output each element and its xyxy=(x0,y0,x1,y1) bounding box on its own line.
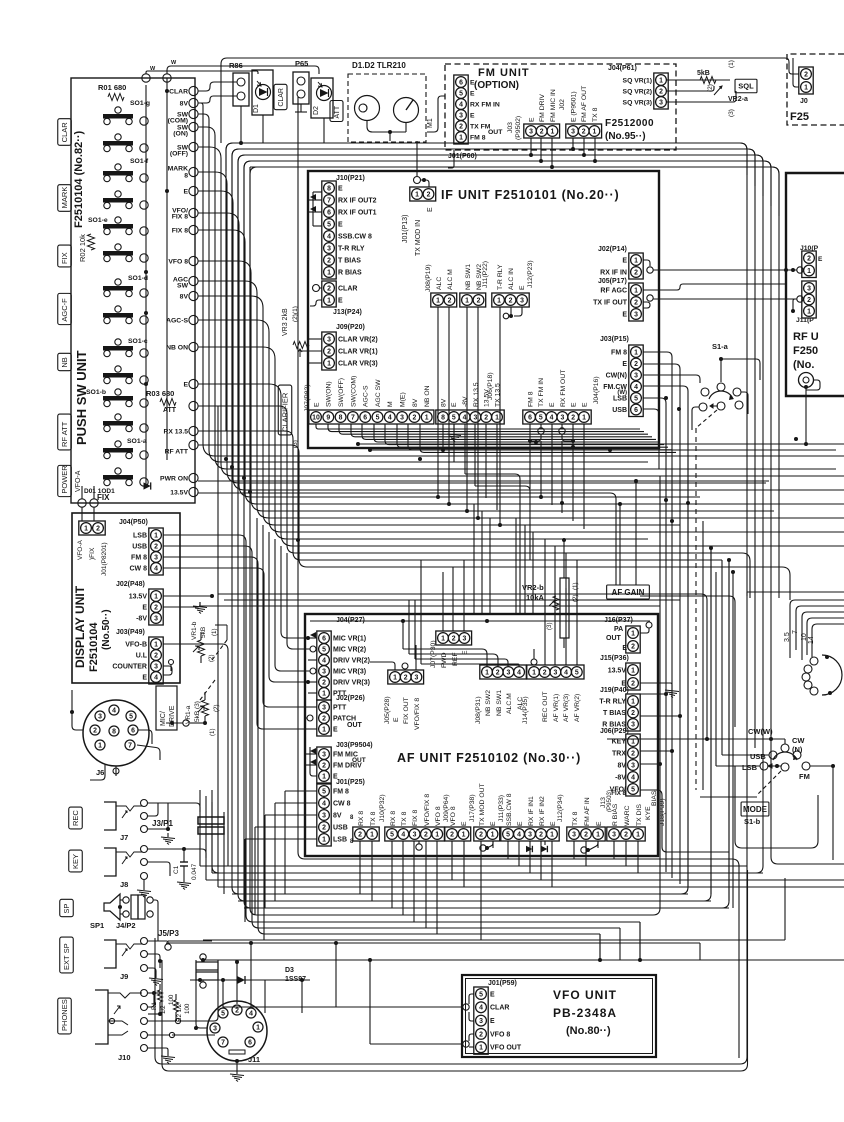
svg-text:E: E xyxy=(622,257,627,264)
connector J07(P82) xyxy=(309,410,434,424)
svg-text:ATT: ATT xyxy=(163,407,177,414)
svg-text:(OFF): (OFF) xyxy=(170,150,188,157)
J11 labels xyxy=(465,264,483,290)
svg-text:8: 8 xyxy=(327,185,331,192)
label FM xyxy=(799,772,810,781)
label J3/P1 xyxy=(152,819,173,828)
svg-text:E: E xyxy=(818,256,823,263)
panel label RF ATT xyxy=(58,414,72,450)
svg-text:3: 3 xyxy=(154,554,158,561)
svg-text:(2): (2) xyxy=(572,594,579,602)
capacitor C1 xyxy=(173,849,198,890)
svg-text:3: 3 xyxy=(571,128,575,135)
connector J11(P33) xyxy=(474,827,500,841)
svg-text:CLAR VR(1): CLAR VR(1) xyxy=(338,348,378,355)
svg-text:14: 14 xyxy=(808,636,815,644)
J09 exit wires xyxy=(300,339,322,363)
svg-text:VFO-B: VFO-B xyxy=(125,641,147,648)
svg-text:E: E xyxy=(470,112,475,119)
diode D1 xyxy=(252,70,273,115)
svg-text:E: E xyxy=(470,79,475,86)
panel label NB xyxy=(58,353,72,370)
svg-text:(W): (W) xyxy=(617,390,627,396)
switch SO1-c section A xyxy=(103,339,133,357)
svg-text:MIC/: MIC/ xyxy=(160,711,167,726)
wire to J0 pin xyxy=(789,58,799,87)
wire meter wires xyxy=(389,132,391,141)
svg-text:1: 1 xyxy=(154,532,158,539)
diode D2 xyxy=(311,78,333,118)
wire push col 2 xyxy=(166,78,168,460)
svg-text:2: 2 xyxy=(496,669,500,676)
connector J03(P9504) xyxy=(317,747,331,783)
svg-text:FM DRIV: FM DRIV xyxy=(539,94,546,122)
wire fan y320 xyxy=(198,320,844,532)
svg-text:4: 4 xyxy=(112,707,116,714)
svg-text:1: 1 xyxy=(322,773,326,780)
label D1.D2 TLR210 xyxy=(352,61,406,70)
svg-text:RX IF IN2: RX IF IN2 xyxy=(539,796,546,826)
svg-text:J17(P38): J17(P38) xyxy=(469,794,476,822)
svg-text:SO1-g: SO1-g xyxy=(130,100,150,107)
svg-text:E: E xyxy=(571,402,578,407)
J08 labels xyxy=(436,269,454,290)
wire FM J03 down3 xyxy=(550,138,554,169)
jack J7 xyxy=(104,800,148,843)
label CLAR (D1) xyxy=(274,84,287,109)
J15 labels xyxy=(608,667,627,687)
svg-text:3: 3 xyxy=(327,336,331,343)
J03(P9504) labels xyxy=(333,751,366,780)
wire bus t2 xyxy=(232,149,755,420)
svg-text:AF VR(1): AF VR(1) xyxy=(553,694,560,722)
pot VR1-a xyxy=(185,692,220,736)
svg-text:7: 7 xyxy=(128,742,132,749)
panel label KEY xyxy=(69,850,83,872)
J7 wires xyxy=(148,803,175,845)
svg-text:E: E xyxy=(142,604,147,611)
svg-text:8: 8 xyxy=(339,414,343,421)
svg-text:3: 3 xyxy=(413,831,417,838)
svg-text:CW 8: CW 8 xyxy=(130,565,148,572)
connector J15(P36) xyxy=(626,663,640,690)
svg-text:E: E xyxy=(183,188,188,195)
J07(P30) wires up xyxy=(443,560,464,631)
connector J03(P15) xyxy=(629,345,643,417)
svg-text:5: 5 xyxy=(452,414,456,421)
svg-text:NB SW2: NB SW2 xyxy=(485,690,492,716)
wire push bottom xyxy=(82,486,94,499)
svg-text:RX FM IN: RX FM IN xyxy=(470,101,500,108)
lamp meter dashed box xyxy=(348,74,426,142)
svg-text:6: 6 xyxy=(322,635,326,642)
wire P65 stub xyxy=(295,104,307,112)
svg-text:J8: J8 xyxy=(120,880,128,889)
label J08(P31) xyxy=(475,696,482,724)
wire fan y347 xyxy=(198,347,648,539)
wire bus B908 xyxy=(244,907,729,909)
svg-text:-8V: -8V xyxy=(615,774,626,781)
svg-text:(COM): (COM) xyxy=(168,117,188,124)
svg-text:D1.D2 TLR210: D1.D2 TLR210 xyxy=(352,61,406,70)
svg-text:2: 2 xyxy=(154,652,158,659)
svg-text:CW: CW xyxy=(792,736,805,745)
label J14(P35) xyxy=(522,696,529,724)
svg-text:10: 10 xyxy=(801,633,808,641)
label J03(P9504) xyxy=(336,742,373,749)
svg-text:5: 5 xyxy=(631,786,635,793)
connector J06(P29) xyxy=(626,734,640,796)
svg-text:3: 3 xyxy=(154,663,158,670)
svg-text:10: 10 xyxy=(312,414,320,421)
J15 gnd wire xyxy=(640,683,679,698)
wire J03p5 xyxy=(643,396,668,462)
connector J08(P31) xyxy=(480,665,527,679)
svg-text:NB: NB xyxy=(60,357,69,367)
svg-text:VFO UNIT: VFO UNIT xyxy=(553,988,617,1002)
connector J12(P23) xyxy=(492,293,529,307)
IF unit title xyxy=(441,188,619,202)
svg-text:1: 1 xyxy=(495,414,499,421)
wire central drops xyxy=(474,504,577,614)
svg-text:2: 2 xyxy=(631,680,635,687)
connector J03(P49) xyxy=(149,637,163,684)
svg-text:FWD: FWD xyxy=(441,652,448,668)
wire bus t3 xyxy=(238,155,763,430)
svg-text:R BIAS: R BIAS xyxy=(612,803,619,826)
svg-text:1: 1 xyxy=(370,831,374,838)
svg-text:5: 5 xyxy=(129,713,133,720)
connector J05(P28) xyxy=(388,670,424,684)
svg-text:E: E xyxy=(451,402,458,407)
svg-text:2: 2 xyxy=(327,348,331,355)
svg-text:1: 1 xyxy=(659,77,663,84)
svg-text:F2510104 (No.82··): F2510104 (No.82··) xyxy=(73,130,85,228)
svg-text:M: M xyxy=(387,401,394,407)
svg-text:(1): (1) xyxy=(211,628,218,636)
pot VR2-a xyxy=(697,70,722,95)
svg-text:NB ON: NB ON xyxy=(424,385,431,407)
connector J14(P35) xyxy=(527,665,584,679)
wire fan y191 xyxy=(198,191,844,490)
svg-text:J08(P31): J08(P31) xyxy=(475,696,482,724)
svg-text:1: 1 xyxy=(631,667,635,674)
J18(P39) labels xyxy=(612,790,666,826)
svg-text:2: 2 xyxy=(322,679,326,686)
AF bottom hooks xyxy=(416,841,598,853)
svg-text:1: 1 xyxy=(550,128,554,135)
resistor R02 10k xyxy=(78,234,95,262)
svg-text:3: 3 xyxy=(400,414,404,421)
svg-text:USB: USB xyxy=(612,407,627,414)
wire FM J02 down3 xyxy=(593,138,597,163)
svg-text:1: 1 xyxy=(415,191,419,198)
wire bus B894 xyxy=(232,893,688,895)
connector J01(P13) xyxy=(410,187,436,201)
svg-text:3: 3 xyxy=(322,751,326,758)
svg-text:F2512000: F2512000 xyxy=(605,118,654,129)
label S1-b xyxy=(744,817,761,826)
svg-text:MIC VR(3): MIC VR(3) xyxy=(333,668,366,675)
svg-text:J05(P28): J05(P28) xyxy=(384,696,391,724)
panel label MARK xyxy=(58,185,72,212)
label J11 xyxy=(248,1055,260,1064)
connector J13(P24) xyxy=(322,281,336,307)
label FIX bottom xyxy=(97,493,110,502)
VFO unit name xyxy=(553,1006,617,1020)
svg-text:E: E xyxy=(142,674,147,681)
label ATT (D2) xyxy=(330,100,343,121)
svg-text:MARK: MARK xyxy=(168,165,188,172)
label SO1-b xyxy=(86,389,106,396)
J14(P35) labels xyxy=(542,691,581,722)
label SQL xyxy=(735,79,757,93)
svg-text:RF U: RF U xyxy=(793,331,819,343)
J01(P60) labels xyxy=(470,79,503,141)
wire D1 bottom xyxy=(262,115,264,143)
pot VR3 2kB xyxy=(282,306,309,357)
svg-text:E: E xyxy=(393,717,400,722)
svg-text:13.5V: 13.5V xyxy=(129,593,148,600)
svg-text:3: 3 xyxy=(154,615,158,622)
label J03(P9502) xyxy=(507,116,522,140)
FM unit title xyxy=(478,67,530,79)
panel label REC xyxy=(69,807,83,829)
svg-text:D01 1OD1: D01 1OD1 xyxy=(84,488,115,495)
svg-text:(1): (1) xyxy=(572,582,579,590)
svg-text:SO1-c: SO1-c xyxy=(128,338,148,345)
wire fan y213 xyxy=(198,213,700,497)
svg-text:KEY: KEY xyxy=(71,854,80,869)
wire AF inner h621 xyxy=(310,619,650,623)
display unit number xyxy=(101,609,112,650)
label J05(P17) xyxy=(598,278,627,285)
svg-text:1: 1 xyxy=(393,674,397,681)
svg-text:COUNTER: COUNTER xyxy=(112,663,147,670)
wire J03p6 xyxy=(643,407,681,469)
svg-text:1: 1 xyxy=(807,308,811,315)
J01(P59) labels xyxy=(490,991,522,1051)
svg-text:0.047: 0.047 xyxy=(191,863,198,880)
svg-text:PWR ON: PWR ON xyxy=(160,475,188,482)
svg-text:RX IF IN: RX IF IN xyxy=(600,269,627,276)
svg-text:E: E xyxy=(183,381,188,388)
wire jack feeds xyxy=(168,803,218,1021)
svg-text:4: 4 xyxy=(459,101,463,108)
svg-text:J03(P15): J03(P15) xyxy=(600,336,629,343)
J02 pin1 loop xyxy=(643,260,653,273)
svg-text:7: 7 xyxy=(351,414,355,421)
svg-text:3: 3 xyxy=(327,245,331,252)
label J5/P3 xyxy=(158,929,179,938)
svg-text:(No.95··): (No.95··) xyxy=(605,131,646,142)
rot labels VR2a xyxy=(707,60,735,117)
svg-text:R86: R86 xyxy=(229,61,243,70)
wire D2 bottom xyxy=(323,118,325,143)
svg-text:J02(P48): J02(P48) xyxy=(116,581,145,588)
svg-text:1: 1 xyxy=(485,669,489,676)
svg-text:1: 1 xyxy=(154,641,158,648)
svg-text:E: E xyxy=(338,297,343,304)
label J02(P26) xyxy=(336,695,365,702)
svg-text:2: 2 xyxy=(484,414,488,421)
svg-text:8V: 8V xyxy=(617,762,626,769)
J06 labels xyxy=(440,382,501,407)
wire bus B873 xyxy=(212,872,763,874)
band switch contacts xyxy=(802,655,842,695)
svg-text:LSB: LSB xyxy=(333,836,347,843)
label SO1-c xyxy=(128,338,148,345)
label J04(P50) xyxy=(119,519,148,526)
svg-text:CLAR: CLAR xyxy=(490,1005,509,1012)
wire frameA xyxy=(298,97,739,1058)
label SO1-g xyxy=(130,100,150,107)
svg-text:LSB: LSB xyxy=(133,532,147,539)
svg-text:TX MOD IN: TX MOD IN xyxy=(415,220,422,256)
svg-text:8: 8 xyxy=(112,728,116,735)
svg-text:SW: SW xyxy=(177,282,189,289)
svg-text:SO1-b: SO1-b xyxy=(86,389,106,396)
J17(P38) labels xyxy=(450,794,476,826)
svg-text:AGC SW: AGC SW xyxy=(375,379,382,407)
wire fan y431 xyxy=(198,431,722,560)
svg-text:FM 8: FM 8 xyxy=(527,391,534,407)
wire bus TB3 xyxy=(212,155,763,873)
J04(P61) labels xyxy=(623,77,652,106)
svg-text:3: 3 xyxy=(213,1025,217,1032)
switch SO1-b section A xyxy=(103,389,133,407)
wire bus TB5 xyxy=(250,167,779,598)
svg-text:SQ VR(1): SQ VR(1) xyxy=(623,77,652,84)
svg-text:AF VR(3): AF VR(3) xyxy=(563,694,570,722)
FM unit subtitle xyxy=(474,80,519,91)
svg-text:PHONES: PHONES xyxy=(60,999,69,1031)
svg-text:1: 1 xyxy=(491,831,495,838)
svg-text:TX 8: TX 8 xyxy=(572,811,579,826)
IF unit box xyxy=(308,171,659,448)
svg-text:3: 3 xyxy=(462,635,466,642)
svg-text:TX IF OUT: TX IF OUT xyxy=(593,299,628,306)
svg-text:OUT: OUT xyxy=(488,129,503,136)
svg-text:OUT: OUT xyxy=(352,757,366,764)
svg-text:PB-2348A: PB-2348A xyxy=(553,1006,617,1020)
svg-text:4: 4 xyxy=(479,1005,483,1012)
J10(P32) labels xyxy=(358,794,386,826)
label J02(P14) xyxy=(598,246,627,253)
svg-text:NB ON: NB ON xyxy=(166,344,188,351)
svg-text:R BIAS: R BIAS xyxy=(338,269,362,276)
connector J4/P2 xyxy=(116,895,153,930)
svg-text:4: 4 xyxy=(401,831,405,838)
switch SO1-a contact b xyxy=(140,478,148,486)
svg-text:TX 8: TX 8 xyxy=(401,811,408,826)
svg-text:VFO 8: VFO 8 xyxy=(168,258,188,265)
svg-text:4: 4 xyxy=(517,831,521,838)
svg-text:2: 2 xyxy=(404,674,408,681)
connector J01(P60) xyxy=(454,75,468,144)
panel label POWER xyxy=(58,465,72,497)
svg-text:FIX 8: FIX 8 xyxy=(172,213,188,220)
svg-text:AGC-S: AGC-S xyxy=(166,317,188,324)
wire bus TB1 xyxy=(155,143,747,1064)
wire bus TB2 xyxy=(232,149,755,748)
svg-text:F2510104: F2510104 xyxy=(88,622,100,672)
svg-text:E: E xyxy=(333,726,338,733)
J05(P28) labels xyxy=(393,697,421,730)
wire TX IF OUT xyxy=(653,298,797,300)
switch SO1-g section B xyxy=(103,134,133,152)
svg-text:RX IF IN1: RX IF IN1 xyxy=(528,796,535,826)
wire disp 135v xyxy=(163,594,214,598)
svg-text:P65: P65 xyxy=(295,59,308,68)
svg-text:E: E xyxy=(549,402,556,407)
wire M1 to FM xyxy=(427,96,445,132)
connector RF J11 xyxy=(802,281,816,318)
svg-text:FM AF IN: FM AF IN xyxy=(584,797,591,826)
svg-text:3: 3 xyxy=(414,674,418,681)
svg-text:2: 2 xyxy=(327,285,331,292)
jack J9 xyxy=(104,938,148,982)
RF J10 pin1 wire xyxy=(791,267,803,273)
connector J02(P14) xyxy=(629,253,643,279)
svg-text:J11(P22): J11(P22) xyxy=(482,261,489,288)
svg-text:2: 2 xyxy=(427,191,431,198)
svg-text:VFO-A: VFO-A xyxy=(77,539,84,560)
svg-text:J02(P26): J02(P26) xyxy=(336,695,365,702)
J12 pin3 hook xyxy=(503,307,522,319)
svg-text:7: 7 xyxy=(792,630,799,634)
svg-text:1: 1 xyxy=(459,134,463,141)
wire y934 xyxy=(163,557,600,960)
J13 stub xyxy=(310,285,322,307)
switch S1-a xyxy=(699,357,743,411)
J6 wires xyxy=(70,690,160,780)
J01(P59) left wires xyxy=(463,994,474,1047)
svg-text:AGC-F: AGC-F xyxy=(60,298,69,322)
wire right verticals xyxy=(666,440,733,908)
svg-text:1: 1 xyxy=(327,269,331,276)
J8 wires xyxy=(137,847,200,898)
svg-text:2: 2 xyxy=(540,128,544,135)
svg-text:DRIV VR(2): DRIV VR(2) xyxy=(333,657,370,664)
band labels xyxy=(784,630,815,644)
D3 vert wires xyxy=(221,941,302,1013)
svg-text:VFO 8: VFO 8 xyxy=(435,806,442,826)
label MODE xyxy=(741,802,769,816)
svg-text:5kB (3): 5kB (3) xyxy=(194,701,201,722)
svg-text:TX 13.5: TX 13.5 xyxy=(494,383,501,407)
svg-text:FM 8: FM 8 xyxy=(611,349,627,356)
pot VR2-b xyxy=(522,578,579,638)
wire bus B901 xyxy=(238,900,711,902)
svg-text:5kB: 5kB xyxy=(697,70,710,77)
wire push col 1 xyxy=(145,85,147,486)
svg-text:3: 3 xyxy=(459,112,463,119)
svg-text:(1): (1) xyxy=(209,728,216,736)
svg-text:CLAR VR(3): CLAR VR(3) xyxy=(338,360,378,367)
svg-text:T-R RLY: T-R RLY xyxy=(338,245,365,252)
wire bus B880 xyxy=(206,879,844,881)
svg-text:3: 3 xyxy=(473,414,477,421)
svg-text:2: 2 xyxy=(539,831,543,838)
svg-text:E: E xyxy=(490,991,495,998)
svg-text:(3): (3) xyxy=(728,109,735,117)
svg-text:SW(COM): SW(COM) xyxy=(350,376,357,407)
svg-text:8: 8 xyxy=(184,172,188,179)
svg-text:CLAR: CLAR xyxy=(278,88,285,107)
svg-text:5: 5 xyxy=(459,90,463,97)
svg-text:6: 6 xyxy=(459,79,463,86)
